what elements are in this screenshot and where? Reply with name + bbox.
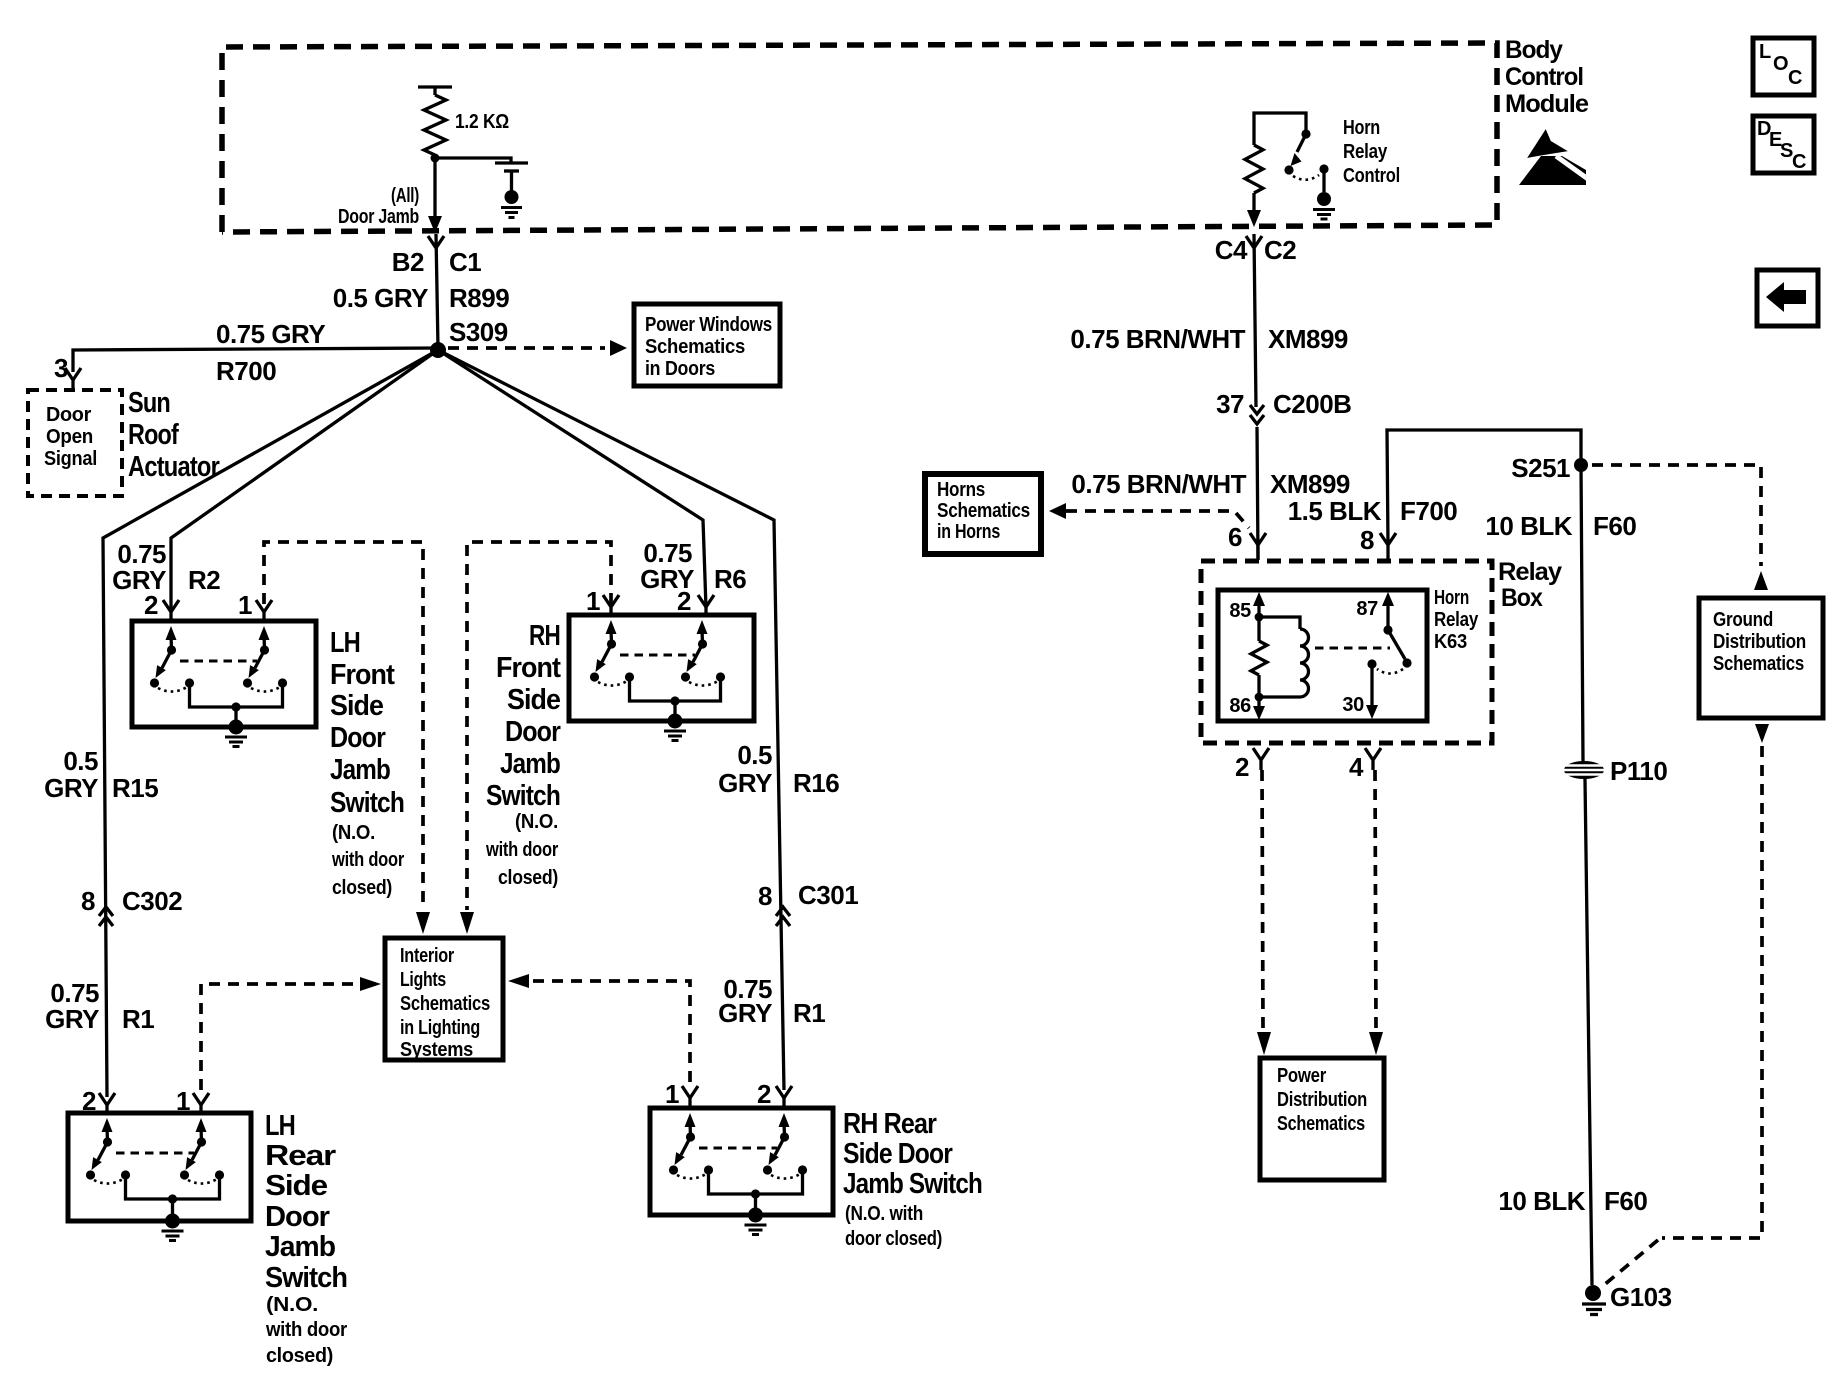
- connector Y pin1 RH rear: [682, 1086, 698, 1108]
- resistor 1.2 Kohm (BCM internal): [418, 87, 452, 155]
- svg-text:86: 86: [1229, 695, 1251, 717]
- connector B2/C1 (Y): [428, 236, 444, 248]
- label LH Front Side Door Jamb Switch: [330, 627, 404, 819]
- wire C4/C2 to C200B: [1254, 234, 1256, 407]
- svg-text:Horns: Horns: [937, 479, 985, 501]
- svg-text:(N.O. with: (N.O. with: [845, 1203, 923, 1225]
- svg-text:R899: R899: [449, 283, 509, 313]
- svg-text:Body: Body: [1505, 36, 1563, 64]
- label R16: [793, 768, 839, 798]
- Horns Schematics in Horns box: [925, 474, 1041, 554]
- svg-text:6: 6: [1228, 522, 1242, 552]
- label LH Rear Side Door Jamb Switch: [265, 1110, 347, 1294]
- svg-text:S309: S309: [449, 317, 508, 347]
- ground at RH rear side door jamb switch case: [745, 1208, 767, 1235]
- svg-text:0.5 GRY: 0.5 GRY: [333, 283, 428, 313]
- svg-text:F700: F700: [1400, 496, 1457, 526]
- label R15: [112, 773, 158, 803]
- connector C200B chevrons: [1250, 405, 1264, 424]
- relay coil resistor: [1251, 617, 1267, 697]
- label 0.75 GRY (R6 wire): [640, 538, 694, 594]
- label 85: [1229, 600, 1251, 622]
- label 0.75 BRN/WHT (lower): [1071, 469, 1246, 499]
- svg-text:in Horns: in Horns: [937, 521, 1000, 543]
- label R1 (RH rear): [793, 998, 825, 1028]
- label RH Rear Side Door Jamb Switch: [843, 1108, 982, 1200]
- svg-text:Roof: Roof: [128, 419, 179, 451]
- svg-text:LH: LH: [265, 1110, 295, 1142]
- label 0.5 GRY (R16 wire): [718, 740, 772, 798]
- svg-text:B2: B2: [392, 247, 424, 277]
- svg-text:in Doors: in Doors: [645, 357, 715, 380]
- Power Distribution Schematics box: [1260, 1058, 1384, 1180]
- label S251: [1511, 453, 1570, 483]
- dashed wire LH rear pin1 to interior lights: [201, 977, 381, 1090]
- svg-text:XM899: XM899: [1270, 469, 1350, 499]
- svg-text:P110: P110: [1610, 756, 1667, 786]
- label F60 (lower): [1604, 1186, 1647, 1216]
- svg-text:GRY: GRY: [112, 565, 166, 595]
- svg-text:Door Jamb: Door Jamb: [338, 206, 419, 228]
- svg-text:8: 8: [758, 881, 772, 911]
- ground G103: [1582, 1285, 1606, 1315]
- svg-text:10 BLK: 10 BLK: [1498, 1186, 1585, 1216]
- wire S309 to RH rear door jamb switch (R16/R1): [438, 350, 784, 1090]
- svg-text:Actuator: Actuator: [128, 451, 220, 483]
- pin 8 label (C301): [758, 881, 772, 911]
- label (N.O. with door closed) RH rear: [845, 1203, 942, 1250]
- relay pin 30 with throw arc: [1366, 659, 1403, 719]
- pin 8 label (C302): [81, 886, 95, 916]
- label Ground Distribution Schematics: [1713, 609, 1806, 675]
- ESD sensitivity symbol: [1519, 126, 1588, 185]
- label R899: [449, 283, 509, 313]
- svg-text:LH: LH: [330, 627, 360, 659]
- label 10 BLK (lower): [1498, 1186, 1585, 1216]
- pin 1 label (RH front): [586, 586, 600, 616]
- connector Y pin2 LH front: [163, 600, 179, 621]
- svg-text:C302: C302: [122, 886, 182, 916]
- pin 6 label: [1228, 522, 1242, 552]
- dashed wire RH rear pin1 to interior lights: [508, 974, 690, 1082]
- svg-text:4: 4: [1349, 752, 1364, 782]
- label 10 BLK (upper): [1485, 511, 1572, 541]
- pin 2 label (relay box): [1235, 752, 1249, 782]
- svg-text:Door: Door: [505, 716, 561, 748]
- RH rear side door jamb switch box: [650, 1108, 833, 1215]
- svg-text:Power Windows: Power Windows: [645, 313, 772, 336]
- dashed wire RH front pin1 to interior lights: [460, 542, 611, 934]
- pin 2 label (LH rear): [82, 1086, 96, 1116]
- svg-text:GRY: GRY: [718, 768, 772, 798]
- connector Y pin 4: [1365, 748, 1381, 770]
- svg-text:C200B: C200B: [1273, 389, 1351, 419]
- pin 4 label (relay box): [1349, 752, 1364, 782]
- splice node S309: [430, 342, 446, 358]
- svg-text:1.5 BLK: 1.5 BLK: [1288, 496, 1382, 526]
- connector Y pin1 LH front: [256, 600, 272, 621]
- svg-text:closed): closed): [332, 877, 392, 899]
- label 1.5 BLK: [1288, 496, 1382, 526]
- pin 2 label (RH rear): [757, 1079, 771, 1109]
- wire C200B to relay box pin 6: [1257, 427, 1258, 560]
- svg-text:Side: Side: [330, 690, 384, 722]
- LH rear side door jamb switch switch contacts: [86, 1118, 224, 1221]
- pin 2 label (RH front): [677, 586, 691, 616]
- svg-text:Schematics: Schematics: [937, 500, 1030, 522]
- svg-text:Side: Side: [265, 1170, 328, 1202]
- connector Y pin2 RH front: [698, 595, 714, 615]
- svg-text:0.5: 0.5: [63, 746, 98, 776]
- svg-text:30: 30: [1342, 694, 1364, 716]
- relay armature dashed link: [1315, 647, 1390, 650]
- svg-text:C1: C1: [449, 247, 481, 277]
- label S309: [449, 317, 508, 347]
- svg-text:Schematics: Schematics: [1277, 1113, 1365, 1135]
- connector C301 chevrons: [776, 907, 790, 926]
- Relay Box dashed enclosure: [1201, 561, 1492, 743]
- label 0.75 GRY (R1 wire LH): [45, 978, 99, 1034]
- svg-text:0.5: 0.5: [737, 740, 772, 770]
- svg-text:Module: Module: [1505, 90, 1589, 118]
- label Horns Schematics in Horns: [937, 479, 1030, 543]
- label R700: [216, 356, 276, 386]
- label (N.O. with door closed) RH front: [485, 811, 558, 889]
- dashed wire pin 2 to power distribution: [1257, 770, 1271, 1055]
- svg-text:C4: C4: [1215, 235, 1248, 265]
- svg-text:RH: RH: [529, 620, 560, 652]
- label 0.75 GRY (R2 wire): [112, 539, 166, 595]
- pin 1 label (RH rear): [665, 1079, 679, 1109]
- svg-text:RH Rear: RH Rear: [843, 1108, 937, 1140]
- svg-text:8: 8: [1360, 525, 1374, 555]
- label 0.5 GRY (R15 wire): [44, 746, 98, 803]
- svg-text:Schematics: Schematics: [1713, 653, 1804, 675]
- label F60 (upper): [1593, 511, 1636, 541]
- svg-text:R2: R2: [188, 565, 220, 595]
- svg-text:R1: R1: [793, 998, 825, 1028]
- svg-text:Rear: Rear: [265, 1140, 336, 1172]
- Interior Lights Schematics box: [385, 938, 503, 1060]
- grommet P110: [1560, 761, 1608, 779]
- svg-text:GRY: GRY: [44, 773, 98, 803]
- pin 2 label (LH front): [144, 590, 158, 620]
- wire 0.75 GRY R700 to sun roof actuator: [73, 348, 438, 372]
- svg-text:Door: Door: [46, 404, 92, 426]
- label Power Distribution Schematics: [1277, 1065, 1367, 1135]
- svg-text:Switch: Switch: [486, 780, 560, 812]
- svg-text:1: 1: [665, 1079, 679, 1109]
- svg-text:0.75 GRY: 0.75 GRY: [216, 319, 325, 349]
- connector C4/C2 (Y): [1246, 236, 1262, 248]
- connector Y at sun roof pin 3: [65, 368, 81, 389]
- label (N.O. with door closed) LH rear: [265, 1294, 347, 1367]
- svg-text:Control: Control: [1505, 63, 1583, 91]
- solid-state ground contact (horn relay control): [1313, 164, 1335, 219]
- pin 1 label (LH front): [238, 590, 252, 620]
- svg-text:closed): closed): [266, 1345, 333, 1367]
- svg-text:Signal: Signal: [44, 448, 97, 470]
- label R1 (LH rear): [122, 1004, 154, 1034]
- label F700: [1400, 496, 1457, 526]
- svg-text:in Lighting: in Lighting: [400, 1017, 480, 1039]
- svg-text:(All): (All): [391, 185, 419, 207]
- svg-text:S251: S251: [1511, 453, 1570, 483]
- svg-text:2: 2: [144, 590, 158, 620]
- svg-text:with door: with door: [485, 839, 558, 861]
- relay coil K63: [1259, 617, 1309, 697]
- label 0.75 GRY (R1 wire RH): [718, 974, 772, 1028]
- svg-text:8: 8: [81, 886, 95, 916]
- ground at RH front side door jamb switch case: [664, 714, 686, 741]
- svg-text:Relay: Relay: [1343, 141, 1388, 163]
- svg-text:(N.O.: (N.O.: [515, 811, 558, 833]
- pin 1 label (LH rear): [176, 1086, 190, 1116]
- svg-text:Control: Control: [1343, 165, 1400, 187]
- relay pin 86 arrow: [1253, 693, 1265, 720]
- RH front side door jamb switch box: [569, 615, 754, 721]
- label XM899 (upper): [1268, 324, 1348, 354]
- Door Open Signal dashed box: [28, 390, 122, 496]
- svg-text:Jamb Switch: Jamb Switch: [843, 1168, 982, 1200]
- svg-text:Front: Front: [330, 659, 395, 691]
- label (All) Door Jamb: [338, 185, 419, 228]
- label XM899 (lower): [1270, 469, 1350, 499]
- connector Y pin2 RH rear: [776, 1086, 792, 1108]
- RH front side door jamb switch switch contacts: [590, 620, 725, 721]
- svg-text:37: 37: [1216, 389, 1244, 419]
- relay pin 85 arrow: [1253, 592, 1265, 621]
- label R2: [188, 565, 220, 595]
- svg-text:Power: Power: [1277, 1065, 1326, 1087]
- svg-text:R700: R700: [216, 356, 276, 386]
- svg-text:Distribution: Distribution: [1277, 1089, 1367, 1111]
- relay pin 87 arrow and lever: [1382, 592, 1412, 668]
- ground at LH rear side door jamb switch case: [162, 1214, 184, 1241]
- svg-text:1: 1: [238, 590, 252, 620]
- svg-text:L: L: [1759, 41, 1771, 63]
- svg-text:C301: C301: [798, 880, 858, 910]
- label 30: [1342, 694, 1364, 716]
- label 86: [1229, 695, 1251, 717]
- svg-text:F60: F60: [1593, 511, 1636, 541]
- connector Y pin 2: [1253, 748, 1269, 770]
- svg-text:Schematics: Schematics: [645, 335, 745, 358]
- label 87: [1356, 598, 1378, 620]
- label C2: [1264, 235, 1296, 265]
- svg-text:Horn: Horn: [1434, 587, 1469, 609]
- pin 3 label: [54, 353, 68, 383]
- LH rear side door jamb switch box: [68, 1113, 251, 1221]
- label (N.O. with door closed) LH front: [331, 822, 404, 899]
- svg-text:Jamb: Jamb: [500, 748, 560, 780]
- svg-text:Door: Door: [265, 1201, 330, 1233]
- dashed wire LH front pin1 to interior lights: [264, 542, 430, 934]
- label C4: [1215, 235, 1248, 265]
- label Horn Relay K63: [1434, 587, 1479, 653]
- BCM internal solid-state ground (left): [435, 158, 528, 218]
- svg-text:GRY: GRY: [45, 1004, 99, 1034]
- svg-text:2: 2: [757, 1079, 771, 1109]
- svg-text:Switch: Switch: [265, 1262, 347, 1294]
- svg-text:Jamb: Jamb: [330, 754, 390, 786]
- label 0.75 GRY: [216, 319, 325, 349]
- svg-text:Distribution: Distribution: [1713, 631, 1806, 653]
- splice S251: [1574, 458, 1588, 472]
- pin 8 label: [1360, 525, 1374, 555]
- svg-text:Front: Front: [496, 652, 561, 684]
- svg-text:87: 87: [1356, 598, 1378, 620]
- RH rear side door jamb switch switch contacts: [669, 1113, 807, 1215]
- svg-text:G103: G103: [1610, 1282, 1672, 1312]
- dashed wire pin 4 to power distribution: [1369, 770, 1383, 1055]
- svg-text:Open: Open: [46, 426, 93, 448]
- svg-text:R1: R1: [122, 1004, 154, 1034]
- svg-text:C2: C2: [1264, 235, 1296, 265]
- label C200B: [1273, 389, 1351, 419]
- svg-text:C: C: [1788, 67, 1802, 89]
- dashed wire S251 to ground distribution schematics: [1592, 465, 1768, 590]
- horn relay K63 inner box: [1218, 590, 1427, 721]
- label RH Front Side Door Jamb Switch: [486, 620, 561, 812]
- svg-text:2: 2: [677, 586, 691, 616]
- label 0.5 GRY: [333, 283, 428, 313]
- svg-text:closed): closed): [498, 867, 558, 889]
- wire S309 to LH front door jamb switch (R2): [171, 350, 438, 612]
- svg-text:F60: F60: [1604, 1186, 1647, 1216]
- svg-text:10 BLK: 10 BLK: [1485, 511, 1572, 541]
- dashed wire horns schematics to pin 6: [1049, 503, 1249, 528]
- label Relay Box: [1498, 558, 1562, 612]
- label Horn Relay Control: [1343, 117, 1400, 187]
- svg-text:Switch: Switch: [330, 787, 404, 819]
- connector Y pin2 LH rear: [99, 1093, 115, 1113]
- svg-text:Schematics: Schematics: [400, 993, 490, 1015]
- connector Y pin1 LH rear: [193, 1093, 209, 1113]
- svg-text:with door: with door: [331, 849, 404, 871]
- label C301: [798, 880, 858, 910]
- svg-text:(N.O.: (N.O.: [266, 1294, 318, 1316]
- svg-text:Ground: Ground: [1713, 609, 1773, 631]
- label B2: [392, 247, 424, 277]
- svg-text:Jamb: Jamb: [265, 1231, 335, 1263]
- dashed wire ground distribution down to G103: [1604, 724, 1769, 1285]
- label Power Windows Schematics in Doors: [645, 313, 772, 380]
- wire B2/C1 down to splice S309: [436, 234, 438, 348]
- label Body Control Module: [1505, 36, 1589, 118]
- svg-text:C: C: [1792, 151, 1806, 173]
- svg-text:R6: R6: [714, 564, 746, 594]
- Body Control Module dashed enclosure: [222, 43, 1497, 232]
- svg-text:(N.O.: (N.O.: [332, 822, 375, 844]
- svg-text:with door: with door: [265, 1319, 347, 1341]
- label R6: [714, 564, 746, 594]
- label Sun Roof Actuator: [128, 387, 220, 483]
- label 37: [1216, 389, 1244, 419]
- label C302: [122, 886, 182, 916]
- switch lever (horn relay control driver): [1284, 129, 1319, 179]
- svg-text:GRY: GRY: [718, 998, 772, 1028]
- value label 1.2 K ohm: [455, 111, 509, 133]
- resistor (horn relay control, BCM internal): [1245, 113, 1306, 193]
- connector C302 chevrons: [99, 907, 113, 926]
- ground at LH front side door jamb switch case: [225, 720, 247, 747]
- wire 10 BLK F60 S251 to G103: [1581, 465, 1592, 1285]
- label 0.75 BRN/WHT (upper): [1070, 324, 1245, 354]
- junction dot below resistor: [431, 154, 440, 163]
- wire S309 to LH rear door jamb switch (R15/R1): [103, 350, 438, 1097]
- connector Y pin 6: [1250, 533, 1266, 560]
- label Interior Lights Schematics in Lighting Systems: [400, 945, 490, 1061]
- svg-text:door closed): door closed): [845, 1228, 942, 1250]
- back-arrow box: [1757, 270, 1818, 326]
- connector Y pin1 RH front: [603, 595, 619, 615]
- svg-text:Horn: Horn: [1343, 117, 1380, 139]
- connector Y pin 8: [1380, 533, 1396, 560]
- svg-text:O: O: [1773, 53, 1788, 75]
- svg-text:Relay: Relay: [1434, 609, 1479, 631]
- svg-text:Door: Door: [330, 722, 386, 754]
- Power Windows Schematics in Doors box: [634, 304, 780, 386]
- svg-text:2: 2: [1235, 752, 1249, 782]
- label P110: [1610, 756, 1667, 786]
- LOC reference box: [1753, 38, 1814, 95]
- svg-text:Relay: Relay: [1498, 558, 1562, 586]
- svg-text:Systems: Systems: [400, 1039, 473, 1061]
- svg-text:Sun: Sun: [128, 387, 170, 419]
- Ground Distribution Schematics box: [1699, 598, 1823, 718]
- dashed wire S309 to Power Windows schematics: [448, 340, 627, 356]
- svg-text:Lights: Lights: [400, 969, 446, 991]
- svg-text:1: 1: [586, 586, 600, 616]
- svg-text:Side: Side: [507, 684, 561, 716]
- svg-text:1.2 KΩ: 1.2 KΩ: [455, 111, 509, 133]
- wire 1.5 BLK F700: pin 8 up and over to S251: [1387, 430, 1581, 545]
- wire (All) Door Jamb output, arrowhead at BCM edge: [428, 158, 442, 233]
- svg-text:K63: K63: [1434, 631, 1467, 653]
- svg-text:85: 85: [1229, 600, 1251, 622]
- svg-text:Interior: Interior: [400, 945, 454, 967]
- label C1: [449, 247, 481, 277]
- wire S309 to RH front door jamb switch (R6): [438, 350, 706, 608]
- DESC reference box: [1753, 116, 1814, 173]
- svg-text:Box: Box: [1501, 584, 1543, 612]
- LH front side door jamb switch box: [132, 621, 316, 727]
- wire to C4, arrowhead at BCM edge: [1247, 193, 1261, 227]
- label G103: [1610, 1282, 1672, 1312]
- svg-text:0.75 BRN/WHT: 0.75 BRN/WHT: [1070, 324, 1245, 354]
- svg-text:R16: R16: [793, 768, 839, 798]
- svg-text:0.75 BRN/WHT: 0.75 BRN/WHT: [1071, 469, 1246, 499]
- svg-text:R15: R15: [112, 773, 158, 803]
- svg-text:Side Door: Side Door: [843, 1138, 953, 1170]
- label Door Open Signal: [44, 404, 97, 470]
- LH front side door jamb switch switch contacts: [150, 626, 287, 727]
- svg-text:XM899: XM899: [1268, 324, 1348, 354]
